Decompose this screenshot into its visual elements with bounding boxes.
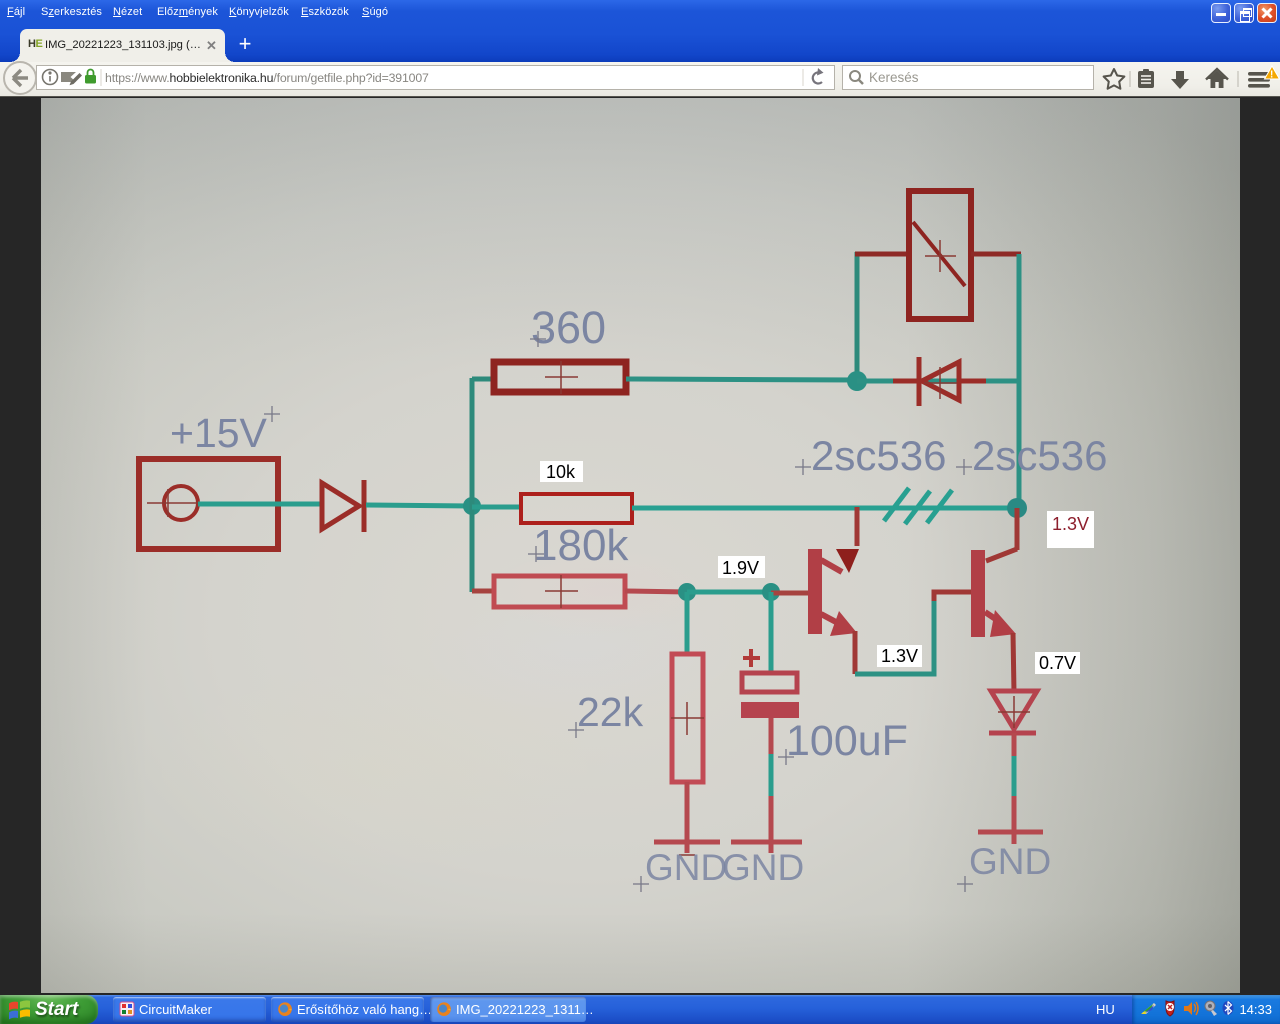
svg-text:2sc536: 2sc536 (811, 432, 946, 479)
label +15V (170, 406, 280, 456)
wire R3 to node D (625, 591, 687, 592)
svg-text:1.3V: 1.3V (1052, 514, 1089, 534)
navigation bar (0, 62, 1280, 97)
wire D3 to GND3 (1012, 733, 1017, 844)
svg-text:GND: GND (969, 841, 1051, 882)
label 1.3V bottom (877, 645, 922, 667)
taskbar (0, 995, 1280, 1024)
wire relay right vertical (1017, 254, 1022, 508)
label 0.7V (1035, 652, 1080, 674)
ground GND1 (654, 842, 720, 855)
tab (20, 29, 225, 62)
svg-text:10k: 10k (546, 462, 576, 482)
node B (847, 371, 867, 391)
wire to R3 (472, 589, 494, 594)
label 22k (568, 689, 644, 738)
transistor Q2 collector (986, 508, 1017, 561)
capacitor C1 plus (743, 649, 760, 667)
wire R2 to node C (632, 506, 1017, 511)
wire red segments at D2 (893, 379, 917, 384)
svg-text:22k: 22k (577, 689, 644, 735)
node D (678, 583, 696, 601)
ground GND3 (978, 830, 1043, 835)
svg-text:100uF: 100uF (786, 717, 908, 765)
Q2 emitter (985, 610, 1016, 637)
toolbar icons right (1090, 62, 1280, 97)
label GND2 (722, 847, 804, 888)
wire node D to node E (687, 590, 771, 595)
label 10k (540, 461, 583, 482)
label GND1 (633, 847, 727, 892)
label 2sc536 left (795, 432, 946, 479)
wire node A to R2 (472, 505, 521, 510)
wire Q2 emitter to D3 (1013, 633, 1014, 692)
wire Q1 emitter to Q2 base (855, 592, 972, 674)
wire node E to Q1 base (771, 591, 809, 596)
label 1.3V top (1047, 511, 1094, 548)
title/menu blue bar (0, 0, 1280, 62)
slashes (884, 488, 952, 524)
svg-text:360: 360 (531, 302, 606, 353)
svg-text:2sc536: 2sc536 (972, 432, 1107, 479)
wire node D down (685, 592, 690, 654)
svg-text:+15V: +15V (170, 410, 268, 456)
wire node A vertical (470, 378, 475, 592)
svg-text:1.9V: 1.9V (722, 558, 759, 578)
capacitor C1 (741, 673, 799, 718)
label 2sc536 right (956, 432, 1107, 479)
resistor R4 22k (671, 654, 704, 782)
diode D2 (919, 357, 959, 406)
wire C1 to GND2 (769, 718, 774, 853)
label GND3 (957, 841, 1051, 892)
resistor R2 10k (521, 494, 632, 523)
resistor R3 180k (494, 575, 625, 608)
ground GND2 (731, 840, 802, 845)
label 360 (530, 302, 606, 353)
wire relay left vertical (855, 252, 860, 381)
wire to R1 (472, 377, 494, 382)
power source V1 (139, 459, 278, 549)
wire node E down to C1 (769, 592, 774, 673)
wire R4 to GND1 (685, 782, 690, 853)
svg-text:1.3V: 1.3V (881, 646, 918, 666)
wire node B to D2 (857, 379, 1019, 384)
wire R1 to relay net (626, 379, 858, 380)
svg-text:180k: 180k (533, 521, 629, 570)
wire relay right horizontal (971, 252, 1021, 257)
wire V1 to D1 (198, 502, 320, 507)
Q1 emitter (821, 611, 857, 636)
label 100uF (778, 717, 908, 765)
resistor R1 360 (494, 361, 626, 394)
Q1 collector arrow (821, 549, 859, 573)
svg-text:GND: GND (645, 847, 727, 888)
svg-text:0.7V: 0.7V (1039, 653, 1076, 673)
wire D1 to node A (366, 505, 472, 506)
label 180k (528, 521, 629, 570)
transistor Q1 collector wire (855, 507, 860, 546)
node A (463, 497, 481, 515)
label 1.9V (718, 556, 765, 578)
wire relay left horizontal (855, 252, 909, 257)
transistor Q2 (971, 550, 985, 637)
diode D3 (989, 691, 1037, 733)
node E (762, 583, 780, 601)
relay K1 (909, 191, 971, 319)
diode D1 (322, 480, 364, 532)
window buttons (1211, 3, 1231, 23)
wire Q1 emitter down (853, 631, 858, 674)
svg-text:GND: GND (722, 847, 804, 888)
node C (1007, 498, 1027, 518)
transistor Q1 (808, 549, 822, 634)
